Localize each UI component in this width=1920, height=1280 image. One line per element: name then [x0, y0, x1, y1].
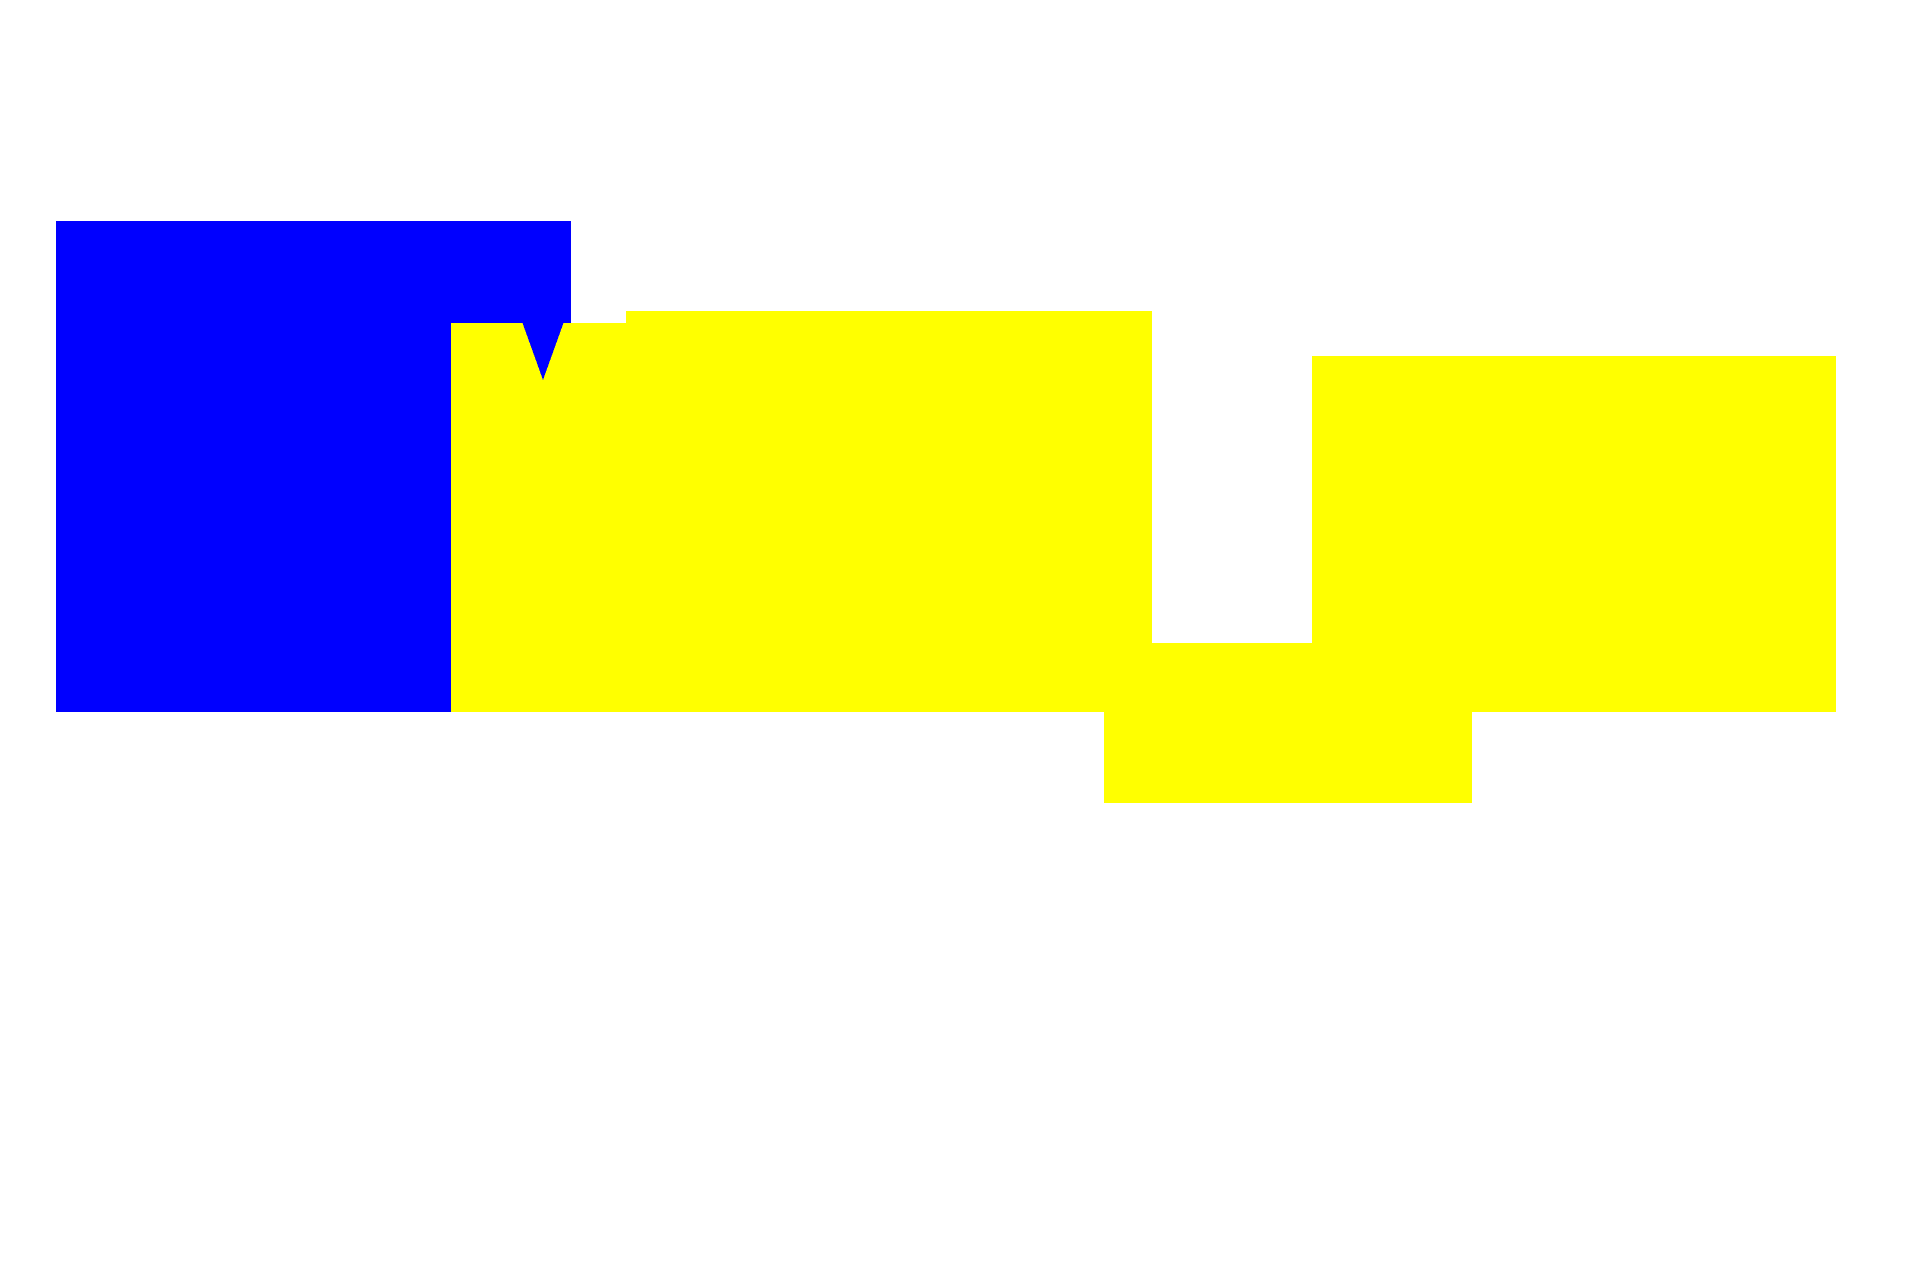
yellow region — [451, 311, 1836, 803]
blue region — [56, 221, 571, 712]
